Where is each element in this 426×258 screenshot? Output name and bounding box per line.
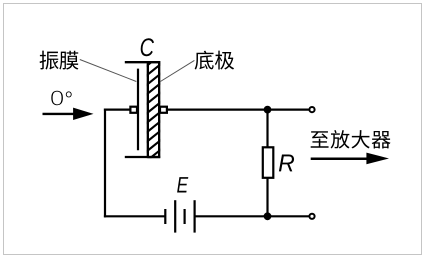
- capacitor C1 left terminal square: [130, 107, 137, 113]
- wire: resistor bottom lead: [266, 178, 268, 217]
- wire: left terminal to left rail: [104, 108, 130, 110]
- output arrow to amplifier: [311, 153, 389, 165]
- label C (capacitor designator): [141, 38, 154, 56]
- label E (battery designator): [177, 177, 188, 192]
- junction node (bottom): [264, 212, 272, 220]
- wire: left rail vertical: [104, 109, 106, 218]
- wire: right terminal to top output terminal: [167, 108, 309, 110]
- wire: bottom rail to battery: [104, 215, 165, 217]
- leader line: 底极 to back plate: [160, 60, 194, 81]
- label 振膜 (diaphragm): [40, 51, 79, 70]
- battery E positive plate (long, right): [194, 200, 196, 232]
- leader line: 振膜 to diaphragm: [80, 60, 137, 82]
- capacitor C1 back plate (hatched): [146, 54, 161, 171]
- capacitor C1 bottom case line: [125, 156, 160, 158]
- label 至放大器 (to amplifier): [311, 130, 391, 148]
- resistor R: [263, 147, 274, 178]
- capacitor C1 top case line: [125, 61, 160, 63]
- battery E negative plate (short, left): [164, 209, 166, 224]
- battery E negative plate (short, middle): [184, 209, 186, 224]
- label R (resistor designator): [279, 155, 294, 172]
- wire: bottom junction to bottom output terminal: [268, 215, 309, 217]
- battery E positive plate (long): [174, 200, 176, 232]
- output terminal (top, open circle): [309, 107, 314, 112]
- junction node (top): [264, 106, 272, 114]
- capacitor C1 diaphragm plate: [137, 69, 139, 151]
- wire: resistor top lead: [266, 110, 268, 148]
- label 底极 (back plate): [195, 51, 234, 70]
- output terminal (bottom, open circle): [309, 214, 314, 219]
- sound input arrow: [43, 108, 94, 120]
- capacitor C1 right terminal square: [160, 107, 167, 113]
- wire: battery to bottom junction: [195, 215, 268, 217]
- label 0° (sound incidence angle): [51, 91, 71, 106]
